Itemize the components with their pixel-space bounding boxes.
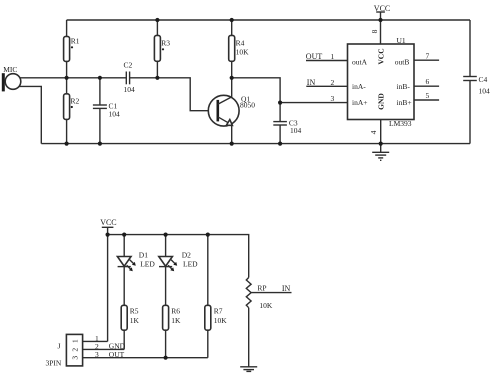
- svg-text:LED: LED: [140, 260, 155, 269]
- resistor R3: [154, 20, 170, 78]
- wire C3 node to pin 3 inA+: [280, 102, 347, 104]
- node collector at R4: [230, 76, 234, 80]
- svg-text:10K: 10K: [214, 316, 228, 325]
- svg-text:LED: LED: [183, 260, 198, 269]
- svg-text:R2: R2: [71, 97, 80, 106]
- svg-text:IN: IN: [307, 78, 316, 87]
- wire connector pin 1 to VCC column: [83, 334, 108, 343]
- svg-text:1K: 1K: [130, 316, 140, 325]
- node ground rail at Q1 emitter: [230, 142, 234, 146]
- svg-text:D2: D2: [182, 251, 191, 260]
- pin 6 inB- stub: [414, 77, 439, 86]
- pin 4 GND of U1: [369, 120, 381, 144]
- svg-text:inB+: inB+: [397, 98, 412, 107]
- svg-text:104: 104: [479, 87, 491, 96]
- resistor R1: [64, 20, 80, 78]
- svg-text:10K: 10K: [236, 47, 250, 56]
- svg-text:8: 8: [370, 29, 379, 33]
- svg-text:OUT: OUT: [109, 350, 125, 359]
- op-amp U1 LM393 box: [348, 36, 415, 128]
- wire Q1 collector to R4 node: [231, 78, 233, 97]
- wire top VCC rail: [67, 19, 470, 21]
- svg-text:1: 1: [70, 339, 79, 343]
- svg-text:U1: U1: [397, 36, 406, 45]
- capacitor C2: [124, 61, 136, 95]
- node top rail at VCC: [378, 18, 382, 22]
- pin 7 outB stub: [414, 51, 439, 60]
- capacitor C1: [93, 78, 120, 144]
- svg-text:LM393: LM393: [389, 119, 412, 128]
- svg-text:inB-: inB-: [397, 82, 411, 91]
- potentiometer RP 10K: [246, 278, 291, 311]
- transistor Q1 8050: [208, 95, 255, 127]
- node signal at C1: [98, 76, 102, 80]
- svg-text:outB: outB: [395, 57, 410, 66]
- wire Q1 emitter to ground rail: [231, 125, 233, 144]
- svg-text:1K: 1K: [171, 316, 181, 325]
- resistor R6: [163, 305, 181, 357]
- wire connector pin 3 OUT net to R6 and R7: [83, 350, 208, 359]
- resistor R7: [205, 235, 228, 358]
- svg-text:R7: R7: [214, 306, 223, 315]
- svg-text:IN: IN: [282, 284, 291, 293]
- wire bottom ground rail: [41, 143, 470, 145]
- node top rail at R3: [155, 18, 159, 22]
- svg-text:R1: R1: [71, 37, 80, 46]
- svg-text:outA: outA: [352, 57, 368, 66]
- pin 8 VCC of U1: [370, 20, 381, 44]
- connector J 3PIN: [46, 334, 83, 367]
- capacitor C3: [273, 103, 301, 144]
- node rail2 at D2: [164, 233, 168, 237]
- resistor R5: [121, 305, 139, 349]
- LED D2: [159, 235, 198, 306]
- pin 2 inA- with net label IN: [306, 78, 347, 87]
- svg-text:OUT: OUT: [306, 52, 323, 61]
- wire signal node to C2: [67, 77, 127, 79]
- svg-text:3: 3: [95, 350, 99, 359]
- svg-text:C4: C4: [479, 75, 488, 84]
- resistor R2: [64, 78, 80, 144]
- svg-text:4: 4: [369, 130, 378, 134]
- node OUT wire at R6: [164, 356, 168, 360]
- svg-text:6: 6: [426, 77, 430, 86]
- svg-text:104: 104: [109, 109, 121, 118]
- svg-text:1: 1: [331, 52, 335, 61]
- svg-text:3PIN: 3PIN: [46, 358, 62, 367]
- node ground rail at R2: [65, 142, 69, 146]
- svg-text:2: 2: [70, 348, 79, 352]
- ground symbol under U1 pin 4: [372, 144, 389, 161]
- pin 5 inB+ stub: [414, 91, 439, 100]
- svg-text:inA-: inA-: [352, 82, 366, 91]
- svg-text:10K: 10K: [259, 301, 273, 310]
- svg-text:GND: GND: [377, 93, 386, 110]
- svg-text:5: 5: [426, 91, 430, 100]
- svg-text:R3: R3: [161, 38, 170, 47]
- svg-text:3: 3: [331, 94, 335, 103]
- svg-text:J: J: [58, 341, 61, 350]
- svg-text:R6: R6: [171, 306, 180, 315]
- svg-text:R4: R4: [236, 38, 245, 47]
- wire MIC top lead to signal node: [20, 77, 67, 79]
- node ground rail at C3: [278, 142, 282, 146]
- svg-text:VCC: VCC: [100, 218, 116, 227]
- node C3 at pin3: [278, 101, 282, 105]
- wire collector node to C3 node: [232, 78, 280, 103]
- node rail2 at D1: [122, 233, 126, 237]
- svg-text:R5: R5: [130, 306, 139, 315]
- svg-text:inA+: inA+: [352, 98, 367, 107]
- wire VCC column down to connector pin 1: [107, 227, 109, 341]
- pin 1 outA with net label OUT: [306, 52, 348, 61]
- svg-text:MIC: MIC: [3, 65, 17, 74]
- wire bottom circuit VCC rail: [108, 235, 249, 278]
- node ground rail at C1: [98, 142, 102, 146]
- node signal at R1/R2: [65, 76, 69, 80]
- wire C2 to R3 node to Q1 base: [130, 78, 218, 111]
- wire RP bottom to ground: [248, 308, 250, 367]
- VCC power symbol (bottom circuit): [100, 218, 116, 227]
- svg-text:104: 104: [290, 126, 302, 135]
- LED D1: [117, 235, 155, 306]
- wire MIC bottom lead: [19, 86, 41, 143]
- svg-text:RP: RP: [257, 283, 266, 292]
- wire connector pin 2 GND net to R5: [83, 342, 126, 351]
- svg-text:D1: D1: [139, 251, 148, 260]
- svg-text:2: 2: [331, 78, 335, 87]
- node rail2 at VCC column: [106, 233, 110, 237]
- node top rail at R4: [230, 18, 234, 22]
- svg-text:104: 104: [124, 85, 136, 94]
- resistor R4: [229, 20, 249, 78]
- VCC power symbol (top circuit): [374, 4, 390, 20]
- ground symbol under RP: [240, 367, 257, 372]
- svg-text:7: 7: [426, 51, 430, 60]
- capacitor C4: [463, 20, 490, 144]
- node signal at R3: [155, 76, 159, 80]
- microphone MIC: [2, 65, 21, 91]
- svg-text:C2: C2: [124, 61, 133, 70]
- svg-text:3: 3: [70, 356, 79, 360]
- node rail2 at R7: [206, 233, 210, 237]
- node ground rail at pin 4: [379, 142, 383, 146]
- svg-text:VCC: VCC: [377, 48, 386, 64]
- svg-text:8050: 8050: [240, 101, 255, 110]
